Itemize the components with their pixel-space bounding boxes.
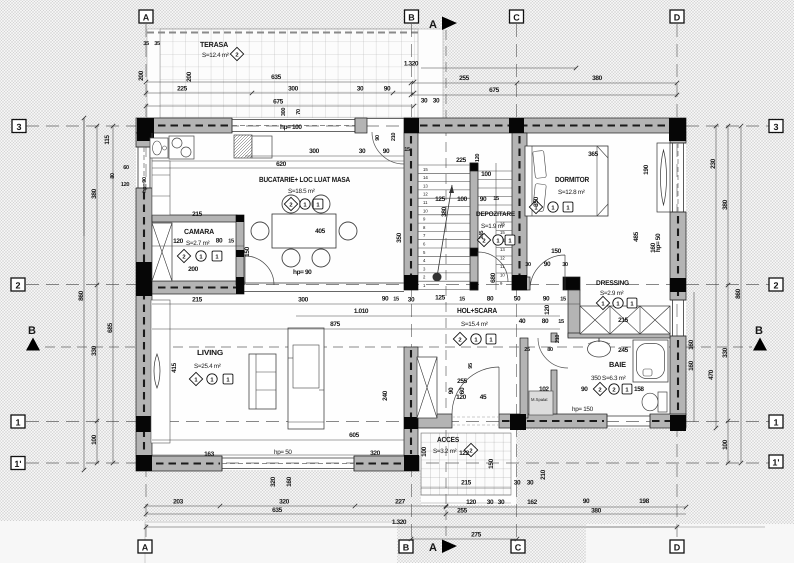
column C/3 — [509, 118, 524, 133]
living window reveal — [151, 300, 170, 443]
svg-text:2: 2 — [458, 337, 461, 344]
svg-text:300: 300 — [281, 108, 287, 116]
door opening acces entry — [452, 416, 499, 418]
svg-text:120: 120 — [173, 238, 183, 245]
marker B top — [405, 10, 419, 23]
svg-text:120: 120 — [466, 499, 476, 506]
marker D bottom — [670, 540, 684, 553]
svg-text:100: 100 — [481, 171, 491, 178]
door frame camara — [236, 250, 244, 257]
porch steps — [421, 494, 511, 496]
svg-text:320: 320 — [370, 450, 380, 457]
room label BAIE — [539, 360, 644, 396]
camara shelf X — [152, 223, 172, 281]
svg-text:70: 70 — [296, 109, 302, 115]
svg-text:2: 2 — [469, 448, 472, 455]
svg-text:100: 100 — [91, 434, 98, 444]
svg-text:245: 245 — [479, 231, 485, 239]
svg-text:95: 95 — [468, 363, 474, 369]
marker 2 left — [11, 278, 25, 291]
svg-text:225: 225 — [456, 157, 466, 164]
svg-text:245: 245 — [618, 347, 628, 354]
dim line 1010 — [296, 315, 560, 317]
marker A bottom — [138, 540, 152, 553]
dim line terrace row 225/300/30/90 — [146, 92, 414, 94]
dim line terrace 635 — [146, 81, 414, 83]
dim ticks — [82, 66, 743, 541]
svg-text:198: 198 — [639, 498, 649, 505]
svg-text:210: 210 — [555, 335, 561, 343]
window left wall kitchen — [136, 147, 152, 188]
wardrobe hall X — [417, 357, 437, 418]
column divider end — [236, 277, 244, 294]
svg-text:90: 90 — [581, 386, 588, 393]
svg-text:90: 90 — [383, 148, 390, 155]
svg-text:120: 120 — [121, 182, 129, 188]
svg-text:30: 30 — [527, 480, 534, 487]
svg-text:485: 485 — [633, 231, 640, 241]
window right wall dressing — [670, 300, 686, 336]
column C/1 — [510, 414, 526, 430]
wall depozitare left — [470, 163, 478, 290]
svg-text:13: 13 — [423, 183, 428, 188]
wall bottom living section — [136, 456, 222, 471]
dim line bottom right row — [446, 506, 686, 508]
svg-text:40: 40 — [519, 318, 526, 325]
wall top right segment B-D — [404, 118, 686, 133]
svg-text:875: 875 — [330, 321, 340, 328]
svg-text:DRESSING: DRESSING — [596, 280, 629, 287]
svg-text:1': 1' — [772, 458, 779, 468]
svg-text:320: 320 — [279, 499, 289, 506]
svg-text:255: 255 — [457, 508, 467, 515]
svg-text:635: 635 — [272, 507, 282, 514]
wall stair right (hall/bedroom) — [512, 133, 527, 290]
svg-text:320: 320 — [270, 476, 277, 486]
building interior white — [136, 118, 686, 505]
svg-text:C: C — [513, 13, 520, 23]
section line B-B horizontal — [45, 346, 752, 348]
svg-text:25: 25 — [524, 347, 530, 353]
svg-text:15: 15 — [493, 196, 499, 202]
svg-text:30: 30 — [433, 98, 440, 105]
marker D top — [670, 10, 684, 23]
bottom white band right — [586, 524, 794, 563]
window bottom bathroom — [607, 414, 650, 428]
wall bathroom north — [568, 333, 670, 338]
svg-text:860: 860 — [78, 290, 85, 300]
marker 1' right — [769, 455, 783, 468]
column D/3 corner — [669, 118, 686, 141]
svg-text:200: 200 — [188, 266, 198, 273]
column D/2 — [670, 278, 686, 292]
svg-text:2: 2 — [15, 281, 20, 291]
axis 1' horizontal — [26, 462, 769, 464]
svg-text:35: 35 — [154, 41, 160, 47]
svg-text:A: A — [429, 542, 437, 554]
svg-text:C: C — [515, 543, 522, 553]
svg-text:190: 190 — [643, 164, 650, 174]
room label DRESSING — [596, 280, 637, 310]
marker 3 left — [12, 120, 26, 133]
bed — [525, 146, 608, 216]
dim line terrace 675 — [146, 105, 414, 107]
svg-text:15: 15 — [560, 297, 566, 303]
insulation dashes in walls — [144, 126, 684, 464]
wall kitchen/living divider — [152, 281, 244, 294]
svg-text:80: 80 — [110, 173, 116, 179]
low wall hp=90 kitchen/living — [244, 283, 404, 292]
svg-text:210: 210 — [540, 469, 547, 479]
wall bedroom bottom — [512, 277, 530, 290]
svg-text:15: 15 — [500, 230, 505, 235]
svg-text:380: 380 — [91, 188, 98, 198]
stairs treads — [418, 165, 470, 290]
svg-text:hp= 90: hp= 90 — [141, 177, 148, 193]
svg-text:160: 160 — [688, 360, 695, 370]
window bottom living (hp=50) — [222, 456, 354, 471]
svg-text:90: 90 — [382, 296, 389, 303]
room label ACCES — [433, 435, 478, 457]
column A/2 — [136, 262, 152, 296]
svg-text:380: 380 — [591, 508, 601, 515]
room label HOL+SCARA — [453, 306, 497, 346]
svg-text:B: B — [28, 325, 36, 337]
door arc bathroom corridor — [538, 338, 568, 368]
svg-text:2: 2 — [289, 202, 292, 209]
room label TERASA — [200, 40, 244, 61]
door arc acces entry — [452, 367, 499, 414]
door arc camara — [245, 256, 274, 285]
svg-text:90: 90 — [544, 261, 551, 268]
svg-text:30: 30 — [487, 499, 494, 506]
svg-text:B: B — [403, 543, 410, 553]
column camara wall top end — [236, 215, 244, 222]
svg-text:TERASA: TERASA — [200, 40, 229, 49]
svg-text:80: 80 — [547, 347, 553, 353]
svg-text:15: 15 — [393, 297, 399, 303]
svg-text:150: 150 — [488, 458, 495, 468]
svg-text:S=15.4 m²: S=15.4 m² — [461, 321, 488, 328]
svg-text:605: 605 — [349, 432, 359, 439]
axis 1 horizontal — [26, 421, 769, 423]
svg-text:S=12.4 m²: S=12.4 m² — [202, 52, 229, 59]
svg-text:380: 380 — [592, 75, 602, 82]
svg-text:S=18.5 m²: S=18.5 m² — [288, 188, 315, 195]
svg-text:LIVING: LIVING — [197, 348, 223, 357]
marker 2 right — [769, 278, 783, 291]
section arrow A top — [429, 17, 457, 32]
wall dressing left corner — [563, 277, 580, 290]
column B/2 — [404, 275, 418, 290]
closet shelf numbers — [500, 222, 505, 287]
wall hall/bathroom — [551, 333, 557, 342]
bedroom window leaf lens — [661, 150, 667, 205]
dim chain right margin — [693, 292, 695, 422]
kitchen tall cabinet left — [152, 161, 170, 215]
svg-text:1.010: 1.010 — [354, 308, 369, 315]
svg-text:BAIE: BAIE — [609, 360, 626, 369]
svg-text:122: 122 — [459, 450, 469, 457]
svg-text:120: 120 — [475, 154, 481, 162]
svg-text:675: 675 — [489, 87, 499, 94]
svg-text:203: 203 — [173, 499, 183, 506]
column A/3 corner — [137, 118, 154, 141]
column A/1 — [136, 416, 152, 432]
svg-text:2: 2 — [235, 52, 238, 59]
svg-text:150: 150 — [551, 248, 561, 255]
marker 1' left — [11, 457, 25, 470]
section line A-A vertical — [445, 30, 447, 538]
svg-text:1.320: 1.320 — [404, 61, 419, 68]
dim line bottom 275 — [411, 538, 517, 540]
dim line bottom 203/320/227 — [146, 505, 446, 507]
bathroom sink — [588, 341, 611, 357]
svg-text:3: 3 — [773, 122, 778, 132]
dim line bottom 1320 — [146, 526, 677, 528]
svg-text:160: 160 — [688, 339, 695, 349]
svg-text:150: 150 — [244, 246, 251, 256]
svg-text:90: 90 — [384, 86, 391, 93]
svg-text:125: 125 — [435, 295, 445, 302]
svg-text:2: 2 — [612, 387, 615, 394]
svg-text:CAMARA: CAMARA — [184, 227, 215, 236]
marker B bottom — [399, 540, 413, 553]
dim line top 1320 — [421, 67, 576, 69]
marker A top — [139, 10, 153, 23]
svg-text:300: 300 — [309, 148, 319, 155]
svg-text:30: 30 — [357, 86, 364, 93]
svg-text:100: 100 — [457, 196, 467, 203]
svg-text:160: 160 — [286, 476, 293, 486]
svg-text:30: 30 — [408, 297, 415, 304]
svg-text:210: 210 — [391, 133, 397, 141]
svg-text:15: 15 — [404, 147, 410, 153]
svg-text:1.320: 1.320 — [392, 519, 407, 526]
dim line living 605 — [152, 439, 404, 441]
axis 3 horizontal — [26, 125, 769, 127]
column B/1 — [404, 417, 418, 429]
depozitare shelves — [495, 163, 497, 290]
wall washer niche — [520, 338, 528, 418]
wall dressing left — [568, 290, 580, 337]
svg-text:DEPOZITARE: DEPOZITARE — [476, 211, 516, 218]
axis 2 horizontal — [26, 284, 769, 286]
kitchen stove burners — [169, 136, 194, 159]
svg-text:275: 275 — [471, 532, 481, 539]
marker 1 left — [11, 415, 25, 428]
svg-text:255: 255 — [457, 378, 467, 385]
svg-text:215: 215 — [192, 211, 202, 218]
terrace slab white — [147, 29, 443, 118]
axis D vertical — [676, 24, 678, 540]
door arc depozitare — [478, 252, 508, 282]
svg-text:12: 12 — [500, 256, 505, 261]
room label DORMITOR — [529, 175, 589, 214]
stairs arrow — [433, 273, 442, 282]
svg-text:120: 120 — [544, 304, 551, 314]
svg-text:1: 1 — [773, 418, 778, 428]
stair tread numbers — [423, 167, 428, 288]
svg-text:90: 90 — [480, 196, 487, 203]
svg-text:60: 60 — [123, 165, 129, 171]
wall top left segment — [136, 118, 232, 133]
marker C top — [510, 10, 524, 23]
svg-text:HOL+SCARA: HOL+SCARA — [457, 306, 498, 315]
svg-text:90: 90 — [448, 387, 455, 394]
marker 1 right — [769, 415, 783, 428]
svg-text:2: 2 — [773, 281, 778, 291]
section arrow A bottom — [429, 540, 457, 555]
bathtub — [633, 340, 668, 382]
svg-text:80: 80 — [216, 238, 223, 245]
svg-text:13: 13 — [500, 247, 505, 252]
access porch tiles — [421, 433, 511, 495]
room label LIVING — [189, 348, 233, 386]
svg-text:B: B — [408, 13, 415, 23]
dim line camara row — [152, 245, 244, 247]
column A/1' corner — [136, 455, 152, 471]
svg-text:15: 15 — [459, 297, 465, 303]
svg-text:350: 350 — [396, 232, 403, 242]
svg-text:1: 1 — [15, 418, 20, 428]
svg-text:160: 160 — [650, 242, 657, 252]
svg-text:A: A — [143, 13, 150, 23]
svg-text:300: 300 — [288, 86, 298, 93]
svg-text:A: A — [142, 543, 149, 553]
room label DEPOZITARE — [476, 211, 516, 247]
section arrow B left — [26, 325, 40, 351]
svg-text:2: 2 — [598, 387, 601, 394]
kitchen sink cabinet — [150, 138, 168, 158]
svg-text:30: 30 — [514, 480, 521, 487]
terrace tiles — [160, 29, 418, 118]
window top (kitchen, hp=100) — [232, 118, 355, 133]
living window leaf lens — [154, 354, 160, 388]
axis B vertical — [411, 24, 413, 540]
svg-text:50: 50 — [514, 296, 521, 303]
svg-text:330: 330 — [91, 345, 98, 355]
svg-text:S=12.8 m²: S=12.8 m² — [558, 189, 585, 196]
kitchen sink bowl — [252, 136, 272, 158]
svg-text:12: 12 — [423, 192, 428, 197]
svg-text:80: 80 — [487, 296, 494, 303]
svg-text:S=1.9 m²: S=1.9 m² — [481, 223, 505, 230]
svg-text:162: 162 — [527, 499, 537, 506]
wall left side — [136, 133, 152, 147]
marker 3 right — [769, 120, 783, 133]
column B/1' — [404, 455, 419, 471]
svg-text:415: 415 — [171, 362, 178, 372]
svg-text:365: 365 — [588, 151, 598, 158]
door arc kitchen-terrace — [372, 132, 404, 164]
dim line divider row — [152, 303, 580, 305]
dim line acces 215 — [421, 487, 511, 489]
svg-text:90: 90 — [375, 135, 381, 141]
svg-text:30: 30 — [421, 98, 428, 105]
svg-text:635: 635 — [271, 74, 281, 81]
column B/3 — [404, 118, 419, 133]
svg-text:163: 163 — [204, 451, 214, 458]
svg-text:14: 14 — [423, 175, 428, 180]
dim chain left margin — [83, 118, 85, 470]
living tv unit — [288, 328, 324, 429]
svg-text:D: D — [674, 13, 681, 23]
svg-text:125: 125 — [435, 196, 445, 203]
svg-text:B: B — [755, 325, 763, 337]
column D/1 — [670, 415, 686, 431]
dining chairs — [251, 195, 357, 267]
svg-text:158: 158 — [634, 386, 644, 393]
axis C vertical — [516, 24, 518, 540]
svg-text:D: D — [674, 543, 681, 553]
dim line top 675 right — [411, 94, 677, 96]
svg-text:2: 2 — [182, 254, 185, 261]
wall camara top — [152, 215, 237, 222]
svg-text:S=2.9 m²: S=2.9 m² — [600, 290, 624, 297]
svg-text:35: 35 — [143, 41, 149, 47]
svg-text:hp= 90: hp= 90 — [293, 269, 312, 276]
svg-text:120: 120 — [456, 394, 466, 401]
dim line bottom 635 — [146, 513, 446, 515]
svg-text:90: 90 — [543, 296, 550, 303]
washing machine — [529, 391, 553, 415]
toilet — [658, 392, 667, 412]
svg-text:3: 3 — [16, 122, 21, 132]
svg-text:680: 680 — [490, 272, 497, 282]
svg-text:200: 200 — [138, 70, 145, 80]
kitchen counter outline — [152, 133, 404, 161]
svg-text:350: 350 — [533, 196, 540, 206]
svg-text:227: 227 — [395, 499, 405, 506]
svg-text:115: 115 — [104, 135, 111, 145]
svg-text:380: 380 — [722, 199, 729, 209]
svg-text:hp= 100: hp= 100 — [280, 124, 302, 131]
svg-text:215: 215 — [618, 317, 628, 324]
svg-text:330: 330 — [722, 347, 729, 357]
svg-text:620: 620 — [276, 161, 286, 168]
svg-text:675: 675 — [273, 99, 283, 106]
bedroom window interior reveal — [657, 143, 670, 212]
dressing wardrobes X — [580, 306, 670, 334]
bottom white band left — [0, 521, 397, 563]
svg-text:225: 225 — [177, 86, 187, 93]
svg-text:ACCES: ACCES — [437, 435, 459, 444]
svg-text:S=25.4 m²: S=25.4 m² — [194, 363, 221, 370]
room label BUCATARIE — [259, 175, 351, 211]
wall right side — [670, 133, 686, 143]
svg-text:1': 1' — [14, 459, 21, 469]
svg-text:M.Spalat: M.Spalat — [531, 397, 548, 402]
svg-text:10: 10 — [500, 273, 505, 278]
dim line top 255/380 — [411, 82, 677, 84]
living sofa — [249, 354, 276, 409]
wall camara right — [236, 215, 244, 285]
dim line kitchen 620 — [152, 167, 404, 169]
svg-text:102: 102 — [539, 386, 549, 393]
svg-text:BUCATARIE+ LOC LUAT MASA: BUCATARIE+ LOC LUAT MASA — [259, 175, 351, 184]
kitchen drainer — [234, 135, 252, 158]
room label CAMARA — [177, 227, 222, 263]
svg-text:90: 90 — [583, 498, 590, 505]
svg-text:DORMITOR: DORMITOR — [555, 175, 590, 184]
svg-text:470: 470 — [708, 369, 715, 379]
svg-text:30: 30 — [359, 148, 366, 155]
svg-text:215: 215 — [461, 480, 471, 487]
svg-text:15: 15 — [558, 319, 564, 325]
window right wall bedroom — [670, 143, 686, 212]
svg-text:405: 405 — [315, 228, 325, 235]
